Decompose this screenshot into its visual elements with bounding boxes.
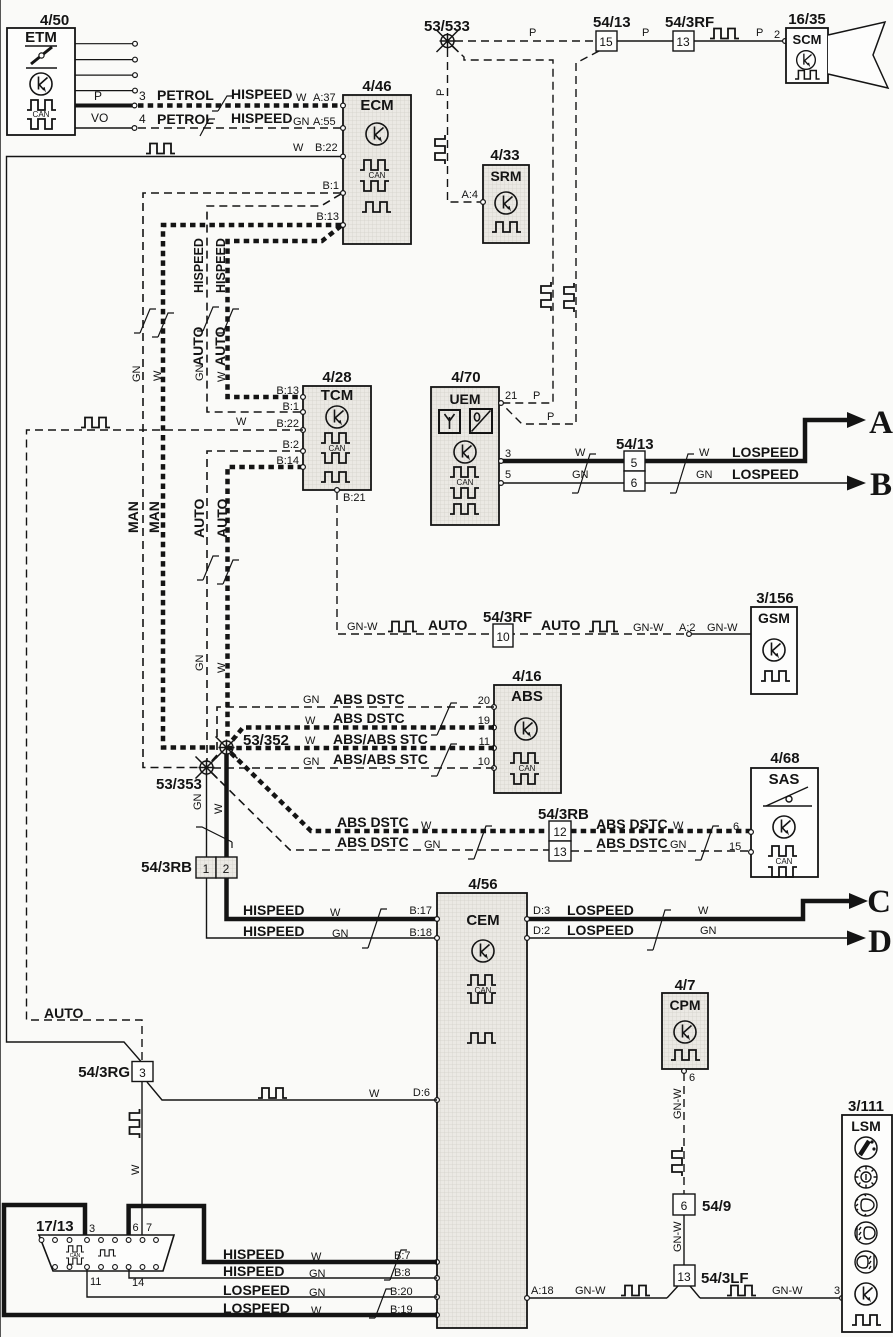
GSM waveform xyxy=(761,671,790,681)
twist slash on PETROL GN wire xyxy=(200,119,215,136)
svg-text:GN: GN xyxy=(303,694,320,706)
wire AUTO W upper (ECM B:13 to TCM B:13) xyxy=(228,226,342,397)
CEM CAN symbol xyxy=(467,975,496,985)
CEM pin B:17 xyxy=(435,917,440,922)
twist slash above 54/3RB xyxy=(196,827,232,848)
svg-text:ECM: ECM xyxy=(360,97,393,114)
svg-text:13: 13 xyxy=(676,35,690,49)
svg-text:HISPEED: HISPEED xyxy=(231,110,292,126)
svg-text:D:2: D:2 xyxy=(533,925,550,937)
svg-text:B:14: B:14 xyxy=(276,455,299,467)
SAS pin 6 xyxy=(749,830,754,835)
wire ABS DSTC GN (splice 53/353 diagonal to 54/3RB 13 to SAS 15) xyxy=(211,772,751,851)
svg-text:7: 7 xyxy=(146,1222,152,1234)
twist slash on AUTO GN upper xyxy=(197,307,219,331)
module SAS 4/68 box xyxy=(751,768,818,877)
SRM waveform xyxy=(492,222,521,232)
svg-text:54/13: 54/13 xyxy=(593,14,631,31)
svg-text:SCM: SCM xyxy=(793,32,822,47)
svg-text:ABS/ABS STC: ABS/ABS STC xyxy=(333,731,428,747)
wire MAN W (ECM B:13 down to splice 53/352) xyxy=(163,225,341,748)
svg-text:C: C xyxy=(867,884,891,920)
svg-text:3: 3 xyxy=(89,1223,95,1235)
svg-text:HISPEED: HISPEED xyxy=(231,86,292,102)
SRM K symbol xyxy=(495,192,517,214)
svg-text:UEM: UEM xyxy=(449,391,480,407)
connector 17/13 trapezoid xyxy=(39,1235,174,1271)
wire AUTO GN upper (ECM B:1 to TCM B:1) xyxy=(207,194,341,412)
svg-text:P: P xyxy=(756,27,763,39)
wire PETROL HISPEED W (ETM 3 to ECM A:37) xyxy=(138,103,341,108)
svg-text:LOSPEED: LOSPEED xyxy=(732,466,799,482)
GSM K symbol xyxy=(763,639,785,661)
svg-text:P: P xyxy=(435,89,447,96)
wire LOSPEED W (17/13 pin 3 loop to CEM B:19) xyxy=(4,1205,437,1315)
twist slash on HISPEED pair bottom xyxy=(384,1250,407,1280)
TCM pin B:1 xyxy=(301,410,306,415)
svg-text:GN-W: GN-W xyxy=(633,622,664,634)
twist slash on MAN W xyxy=(152,313,174,337)
svg-text:A:55: A:55 xyxy=(313,116,336,128)
svg-text:GN: GN xyxy=(700,925,717,937)
TCM pin B:14 xyxy=(301,465,306,470)
scan edge border xyxy=(0,0,2,1337)
svg-text:53/353: 53/353 xyxy=(156,776,202,793)
svg-text:B:18: B:18 xyxy=(409,927,432,939)
svg-text:A: A xyxy=(869,405,893,441)
svg-text:P: P xyxy=(529,27,536,39)
LSM rear fog icon xyxy=(855,1251,877,1273)
svg-text:B:19: B:19 xyxy=(390,1304,413,1316)
wire LOSPEED W (UEM 3 through 54/13 5 to arrow A) xyxy=(503,420,849,461)
wire ETM open lead 1 xyxy=(75,43,133,45)
svg-text:B: B xyxy=(870,467,892,503)
svg-text:A:18: A:18 xyxy=(531,1285,554,1297)
TCM lower waveform xyxy=(321,472,350,482)
connector 54/13 pin 5 box xyxy=(624,451,645,471)
CEM pin B:8 xyxy=(435,1276,440,1281)
wire LOSPEED GN (UEM 5 through 54/13 6 to arrow B) xyxy=(503,482,850,484)
SAS K symbol xyxy=(773,816,795,838)
UEM pin 3 xyxy=(499,459,504,464)
svg-text:W: W xyxy=(421,820,432,832)
svg-text:W: W xyxy=(305,735,316,747)
module SRM 4/33 box xyxy=(483,165,529,243)
svg-text:A:4: A:4 xyxy=(461,189,478,201)
svg-text:LSM: LSM xyxy=(851,1118,881,1134)
svg-text:W: W xyxy=(216,662,228,673)
SCM flag symbol xyxy=(828,22,888,88)
svg-text:3/111: 3/111 xyxy=(848,1098,884,1115)
wire W ABS DSTC (ABS 19 to splice 53/352) xyxy=(230,728,494,744)
UEM pin 5 xyxy=(499,481,504,486)
CEM pin B:19 xyxy=(435,1313,440,1318)
wire ETM open lead 2 xyxy=(75,59,133,61)
ETM switch symbol xyxy=(25,46,57,68)
wire MAN GN (ECM B:1 down to splice 53/353) xyxy=(143,193,341,768)
connector 54/13 pin 6 box xyxy=(624,471,645,491)
svg-text:W: W xyxy=(293,142,304,154)
arrow B head xyxy=(847,476,866,491)
ABS pin 11 xyxy=(492,746,497,751)
module ECM 4/46 box xyxy=(343,95,411,244)
UEM pin 21 xyxy=(499,401,504,406)
svg-text:54/3LF: 54/3LF xyxy=(701,1270,749,1287)
wire GN-W (CEM A:18 to LSM 3) xyxy=(529,1297,842,1299)
svg-text:W: W xyxy=(311,1305,322,1317)
SAS angle sensor symbol xyxy=(763,787,812,806)
svg-text:W: W xyxy=(369,1088,380,1100)
svg-text:AUTO: AUTO xyxy=(44,1005,84,1021)
svg-text:W: W xyxy=(216,371,228,382)
svg-text:CAN: CAN xyxy=(519,764,536,773)
svg-text:ABS DSTC: ABS DSTC xyxy=(596,835,668,851)
svg-text:A:2: A:2 xyxy=(679,622,696,634)
svg-text:LOSPEED: LOSPEED xyxy=(223,1282,290,1298)
module CEM 4/56 box xyxy=(437,893,527,1328)
CEM lower waveform xyxy=(467,1033,496,1043)
svg-text:AUTO: AUTO xyxy=(190,326,206,366)
svg-text:4/46: 4/46 xyxy=(362,78,391,95)
ECM pin B:1 xyxy=(341,191,346,196)
twist slash on AUTO W lower xyxy=(217,560,239,584)
svg-text:P: P xyxy=(94,89,102,103)
svg-text:LOSPEED: LOSPEED xyxy=(567,902,634,918)
svg-text:B:13: B:13 xyxy=(276,385,299,397)
CEM pin A:18 xyxy=(525,1296,530,1301)
svg-text:4/50: 4/50 xyxy=(40,12,69,29)
svg-text:B:13: B:13 xyxy=(316,211,339,223)
svg-text:LOSPEED: LOSPEED xyxy=(223,1300,290,1316)
wire GN ABS DSTC (ABS 20 to splice 53/353) xyxy=(209,707,494,764)
ECM CAN symbol xyxy=(360,160,389,170)
svg-text:W: W xyxy=(236,416,247,428)
svg-text:10: 10 xyxy=(496,630,510,644)
wire AUTO GN lower (TCM B:2 down to splice 53/353) xyxy=(207,451,303,761)
17/13 bottom row pins xyxy=(53,1265,159,1270)
wire ETM open lead 4 xyxy=(75,90,133,92)
17/13 top row pins xyxy=(39,1238,158,1243)
wire W B:22 loop (ECM B:22 left edge down to 54/3RG) xyxy=(7,157,342,1062)
svg-text:1: 1 xyxy=(203,862,210,876)
UEM CAN symbol xyxy=(450,467,479,477)
wire PETROL HISPEED GN (ETM 4 to ECM A:55) xyxy=(138,127,341,129)
CEM pin D:3 xyxy=(525,917,530,922)
svg-text:CPM: CPM xyxy=(669,997,700,1013)
LSM parking light icon xyxy=(855,1166,877,1188)
wire P dashed (53/533 to 54/13 pin 15) xyxy=(455,40,596,42)
svg-text:W: W xyxy=(213,803,225,814)
twist slash on A/B pair right xyxy=(670,454,694,493)
svg-text:54/3RG: 54/3RG xyxy=(78,1064,130,1081)
svg-text:AUTO: AUTO xyxy=(428,617,468,633)
svg-text:HISPEED: HISPEED xyxy=(223,1263,284,1279)
svg-text:20: 20 xyxy=(478,695,490,707)
svg-text:GN: GN xyxy=(192,793,204,810)
svg-text:AUTO: AUTO xyxy=(191,498,207,538)
svg-text:ABS DSTC: ABS DSTC xyxy=(333,710,405,726)
arrow C head xyxy=(849,893,868,909)
svg-text:LOSPEED: LOSPEED xyxy=(567,922,634,938)
svg-text:5: 5 xyxy=(631,456,638,470)
svg-text:HISPEED: HISPEED xyxy=(192,238,206,293)
LSM waveform xyxy=(852,1315,881,1325)
svg-text:GN-W: GN-W xyxy=(772,1285,803,1297)
UEM lower waveform xyxy=(450,504,479,514)
svg-text:GN: GN xyxy=(309,1287,326,1299)
wire GN-W (54/9 to 54/3LF) xyxy=(683,1215,685,1265)
svg-text:GN: GN xyxy=(194,654,206,671)
twist slash on AUTO W upper xyxy=(217,309,239,333)
wire HISPEED W (17/13 pin 6 loop to CEM B:7) xyxy=(129,1206,437,1262)
SAS CAN symbol xyxy=(768,846,797,856)
wire GN-W dashed (CPM 6 to 54/9) xyxy=(683,1073,685,1194)
svg-text:GN: GN xyxy=(670,839,687,851)
connector 54/3RB pin 1 box xyxy=(196,857,216,878)
connector 54/3RF pin 13 box xyxy=(673,31,694,51)
17/13 internal CAN symbol xyxy=(66,1246,84,1252)
module GSM 3/156 box xyxy=(751,607,797,694)
svg-text:ABS DSTC: ABS DSTC xyxy=(333,691,405,707)
svg-text:ABS DSTC: ABS DSTC xyxy=(337,834,409,850)
svg-text:4/70: 4/70 xyxy=(451,369,480,386)
twist slash ABS 11/10 pair xyxy=(431,744,457,776)
module UEM 4/70 box xyxy=(431,387,499,525)
wire ETM open lead 3 xyxy=(75,74,133,76)
wire P dashed (53/533 branch down-right then to UEM 21) xyxy=(452,46,553,403)
svg-text:TCM: TCM xyxy=(321,387,354,404)
splice 53/352 xyxy=(216,737,238,759)
svg-text:4/56: 4/56 xyxy=(468,876,497,893)
ETM K symbol xyxy=(30,73,52,95)
wire ETM pin 4 VO xyxy=(75,127,132,129)
svg-text:B:20: B:20 xyxy=(390,1286,413,1298)
svg-text:P: P xyxy=(533,390,540,402)
svg-text:14: 14 xyxy=(132,1277,144,1289)
svg-text:3/156: 3/156 xyxy=(756,590,794,607)
wire P (54/3RF to SCM 2) xyxy=(694,40,784,42)
UEM theta symbol xyxy=(470,409,492,433)
splice 53/533 xyxy=(437,30,459,52)
LSM rotary switch icon xyxy=(855,1137,877,1159)
svg-text:3: 3 xyxy=(834,1285,840,1297)
ABS pin 19 xyxy=(492,725,497,730)
svg-text:GN: GN xyxy=(309,1268,326,1280)
svg-text:W: W xyxy=(699,447,710,459)
svg-text:SAS: SAS xyxy=(769,771,800,788)
svg-text:W: W xyxy=(330,907,341,919)
svg-text:54/3RF: 54/3RF xyxy=(665,14,714,31)
CEM pin D:2 xyxy=(525,936,530,941)
svg-text:10: 10 xyxy=(478,756,490,768)
twist slash on LOSPEED pair bottom xyxy=(369,1289,392,1318)
UEM K symbol xyxy=(454,441,476,463)
connector 54/3RB pin 2 box xyxy=(216,857,237,878)
svg-text:D:6: D:6 xyxy=(413,1087,430,1099)
wire V legs 54/3LF to A:18 line xyxy=(667,1286,700,1298)
wire GN ABS/ABS STC (ABS 10 through splice 53/353) xyxy=(207,767,494,769)
connector 54/3RB pin 13 box xyxy=(549,841,571,861)
ABS pin 20 xyxy=(492,705,497,710)
wire GN-W solid tail into GSM xyxy=(689,633,751,635)
twist slash on HISPEED pair xyxy=(362,909,387,948)
ABS CAN symbol xyxy=(510,753,539,763)
connector 54/13 pin 15 box xyxy=(596,31,617,51)
wire LOSPEED GN (CEM D:2 to arrow D) xyxy=(529,937,850,939)
svg-text:B:8: B:8 xyxy=(394,1267,411,1279)
SAS pin 15 xyxy=(749,850,754,855)
wire W (54/3RG to CEM D:6) xyxy=(147,1082,437,1100)
svg-text:P: P xyxy=(642,27,649,39)
twist slash on AUTO GN lower xyxy=(197,556,219,580)
TCM K symbol xyxy=(326,406,348,428)
svg-text:GN: GN xyxy=(293,116,310,128)
svg-text:W: W xyxy=(311,1251,322,1263)
TCM pin B:22 xyxy=(301,428,306,433)
svg-text:P: P xyxy=(547,411,554,423)
svg-text:3: 3 xyxy=(505,448,511,460)
svg-text:GN-W: GN-W xyxy=(672,1088,684,1119)
wire W B:22 dashed (TCM B:22 left, down at x=28, AUTO to 54/3RG) xyxy=(27,430,304,1062)
connector 54/3RG pin 3 box xyxy=(132,1062,153,1082)
svg-text:HISPEED: HISPEED xyxy=(243,902,304,918)
LSM headlight icon xyxy=(855,1194,877,1216)
wire LOSPEED GN (17/13 pin 11 to CEM B:20) xyxy=(87,1269,437,1297)
svg-text:6: 6 xyxy=(631,476,638,490)
svg-text:D:3: D:3 xyxy=(533,905,550,917)
svg-text:GN-W: GN-W xyxy=(575,1285,606,1297)
svg-text:AUTO: AUTO xyxy=(541,617,581,633)
svg-text:4/68: 4/68 xyxy=(770,750,799,767)
wire GN-W AUTO (TCM B:21 to GSM A:2) xyxy=(337,492,689,634)
svg-text:W: W xyxy=(305,715,316,727)
svg-text:16/35: 16/35 xyxy=(788,11,826,28)
svg-text:4: 4 xyxy=(139,112,146,126)
svg-text:W: W xyxy=(296,92,307,104)
svg-text:GN: GN xyxy=(303,756,320,768)
svg-text:15: 15 xyxy=(729,841,741,853)
svg-text:GN: GN xyxy=(696,469,713,481)
splice 53/353 xyxy=(196,757,218,779)
svg-text:W: W xyxy=(130,1164,142,1175)
CEM pin B:7 xyxy=(435,1260,440,1265)
twist slash on MAN GN xyxy=(134,309,156,333)
wire HISPEED GN (17/13 pin 14 to CEM B:8) xyxy=(129,1269,437,1278)
svg-text:13: 13 xyxy=(553,845,567,859)
svg-text:6: 6 xyxy=(733,821,739,833)
svg-text:MAN: MAN xyxy=(146,501,162,533)
wire W (54/3RG down to 17/13 pin 7) xyxy=(141,1082,143,1240)
svg-text:4/28: 4/28 xyxy=(322,369,351,386)
svg-text:B:7: B:7 xyxy=(394,1250,411,1262)
CEM pin B:18 xyxy=(435,936,440,941)
arrow D head xyxy=(847,931,866,946)
svg-text:LOSPEED: LOSPEED xyxy=(732,444,799,460)
svg-text:15: 15 xyxy=(599,35,613,49)
svg-text:GN: GN xyxy=(194,364,206,381)
svg-text:CAN: CAN xyxy=(457,478,474,487)
svg-text:HISPEED: HISPEED xyxy=(243,923,304,939)
twist slash on PETROL W wire xyxy=(212,96,233,111)
module LSM 3/111 box xyxy=(842,1115,892,1332)
wire AUTO W lower (TCM B:14 down to splice 53/352) xyxy=(228,467,304,741)
wire W ABS/ABS STC (ABS 11 through splice 53/352) xyxy=(227,746,494,751)
svg-text:SRM: SRM xyxy=(490,168,521,184)
twist slash lower pair left xyxy=(468,826,492,859)
svg-text:6: 6 xyxy=(689,1072,695,1084)
CPM waveform xyxy=(671,1050,700,1060)
svg-text:ABS/ABS STC: ABS/ABS STC xyxy=(333,751,428,767)
ABS K symbol xyxy=(515,718,537,740)
ECM pin A:37 xyxy=(341,103,346,108)
connector 54/3RB pin 12 box xyxy=(549,821,571,841)
connector 54/3RF pin 10 box xyxy=(493,624,513,647)
svg-text:21: 21 xyxy=(505,390,517,402)
module TCM 4/28 box xyxy=(303,386,371,490)
svg-text:54/3RB: 54/3RB xyxy=(141,859,192,876)
TCM pin B:13 xyxy=(301,395,306,400)
UEM antenna symbol xyxy=(439,410,460,433)
twist slash on C/D pair xyxy=(647,910,671,950)
twist slash ABS 20/19 pair xyxy=(431,703,457,735)
wire LOSPEED W (CEM D:3 to arrow C) xyxy=(529,901,851,919)
svg-text:GN: GN xyxy=(131,365,143,382)
svg-text:6: 6 xyxy=(681,1199,688,1213)
connector 54/3LF pin 13 box xyxy=(674,1265,695,1286)
arrow A head xyxy=(847,412,866,428)
svg-text:CEM: CEM xyxy=(466,912,499,929)
svg-text:W: W xyxy=(673,820,684,832)
svg-text:W: W xyxy=(152,370,164,381)
svg-text:B:1: B:1 xyxy=(282,401,299,413)
svg-text:GSM: GSM xyxy=(758,610,790,626)
svg-text:CAN: CAN xyxy=(776,857,793,866)
svg-text:6: 6 xyxy=(133,1222,139,1234)
svg-text:B:2: B:2 xyxy=(282,439,299,451)
module CPM 4/7 box xyxy=(662,993,708,1069)
svg-text:ABS DSTC: ABS DSTC xyxy=(596,816,668,832)
CEM pin D:6 xyxy=(435,1098,440,1103)
svg-text:B:17: B:17 xyxy=(409,905,432,917)
svg-text:11: 11 xyxy=(90,1276,101,1288)
module SCM 16/35 box xyxy=(786,28,828,83)
svg-text:ABS DSTC: ABS DSTC xyxy=(337,814,409,830)
ECM pin B:13 xyxy=(341,223,346,228)
svg-text:PETROL: PETROL xyxy=(157,87,214,103)
svg-text:GN-W: GN-W xyxy=(347,621,378,633)
SRM pin A:4 xyxy=(481,200,486,205)
svg-text:AUTO: AUTO xyxy=(212,326,228,366)
svg-text:12: 12 xyxy=(553,825,567,839)
svg-text:GN-W: GN-W xyxy=(707,622,738,634)
svg-text:2: 2 xyxy=(774,29,780,41)
svg-text:VO: VO xyxy=(91,111,108,125)
CPM pin 6 xyxy=(682,1069,687,1074)
svg-text:ETM: ETM xyxy=(25,29,57,46)
CEM K symbol xyxy=(472,940,494,962)
wire ETM pin 3 P xyxy=(75,104,132,108)
svg-text:13: 13 xyxy=(677,1270,691,1284)
LSM front fog icon xyxy=(855,1222,877,1244)
svg-text:19: 19 xyxy=(478,715,490,727)
connector 54/9 pin 6 box xyxy=(673,1194,695,1215)
svg-text:GN-W: GN-W xyxy=(672,1221,684,1252)
svg-text:A:37: A:37 xyxy=(313,92,336,104)
ECM pin B:22 xyxy=(341,154,346,159)
svg-text:HISPEED: HISPEED xyxy=(214,238,228,293)
LSM K symbol xyxy=(855,1283,877,1305)
svg-text:ABS: ABS xyxy=(511,688,543,705)
